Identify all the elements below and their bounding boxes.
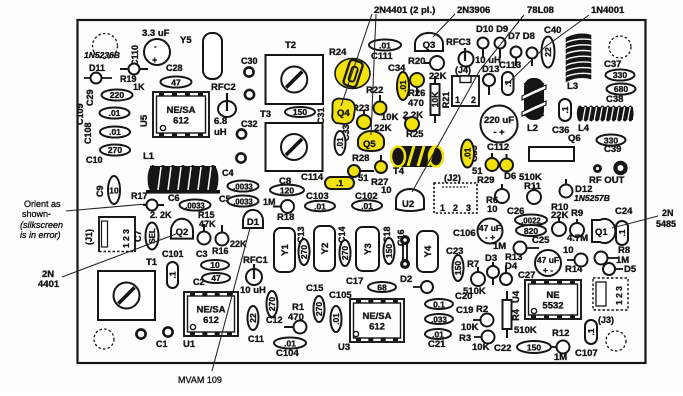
capacitor T3-150 [285, 107, 315, 117]
crystal Y4 [417, 231, 438, 272]
svg-text:10K: 10K [430, 91, 440, 107]
svg-text:RF OUT: RF OUT [589, 175, 625, 186]
svg-text:3: 3 [466, 203, 471, 213]
svg-text:R4: R4 [511, 309, 521, 321]
svg-text:22: 22 [543, 47, 553, 57]
capacitor C34 .01 [397, 72, 409, 100]
svg-text:4401: 4401 [38, 279, 60, 290]
svg-text:C101: C101 [162, 249, 184, 259]
capacitor C26 .0022 [507, 206, 547, 226]
capacitor C11 22 [248, 306, 259, 330]
svg-text:1N5236B: 1N5236B [84, 50, 120, 60]
IC U1 NE/SA 612 [184, 292, 238, 336]
capacitor C105 .01 [331, 306, 342, 332]
T2 body [266, 55, 324, 104]
diode D11 [84, 63, 112, 84]
svg-text:51: 51 [358, 173, 369, 184]
svg-text:C107: C107 [575, 348, 598, 359]
svg-text:T1: T1 [146, 257, 158, 268]
svg-text:Q1: Q1 [595, 227, 608, 238]
svg-text:.01: .01 [336, 137, 345, 149]
svg-text:NE/SA: NE/SA [362, 311, 391, 322]
svg-text:.01: .01 [109, 127, 121, 137]
transistor Q4 [332, 99, 355, 125]
svg-text:R20: R20 [408, 56, 425, 67]
svg-text:C6: C6 [168, 193, 180, 203]
T1 body [98, 271, 155, 320]
svg-text:470: 470 [288, 312, 304, 323]
svg-text:220: 220 [110, 90, 124, 100]
svg-text:4.7M: 4.7M [567, 233, 588, 244]
svg-text:47: 47 [211, 273, 221, 283]
capacitor C102 .01 [352, 191, 382, 211]
svg-text:R9: R9 [571, 208, 583, 219]
svg-text:270: 270 [108, 145, 122, 155]
svg-text:MVAM 109: MVAM 109 [178, 375, 222, 385]
svg-text:10: 10 [381, 185, 392, 196]
svg-text:(J4): (J4) [455, 65, 471, 75]
svg-text:R3: R3 [459, 333, 471, 344]
svg-text:R25: R25 [406, 129, 424, 140]
svg-text:3.3 uF: 3.3 uF [142, 28, 170, 39]
capacitor C13 270 [299, 239, 310, 265]
inductor L2 [522, 78, 546, 120]
resistor R14 10 [563, 245, 588, 275]
transistor Q2 [171, 219, 193, 239]
capacitor C7 SEL [133, 223, 159, 250]
transistor Q3 [415, 33, 443, 51]
svg-text:C3: C3 [196, 249, 208, 259]
svg-text:2N: 2N [662, 208, 674, 218]
svg-text:.1: .1 [168, 271, 178, 278]
svg-text:Y3: Y3 [363, 243, 374, 255]
svg-text:-: - [154, 42, 157, 51]
connector J3 [593, 278, 628, 325]
pad C32 [237, 129, 246, 138]
C113 pill [502, 72, 514, 95]
resistor R16b 22K [216, 225, 229, 246]
svg-text:shown-: shown- [22, 209, 51, 219]
svg-text:T3: T3 [260, 109, 271, 120]
svg-text:.1: .1 [560, 106, 570, 113]
svg-text:(silkscreen: (silkscreen [20, 220, 63, 230]
svg-text:C112: C112 [487, 142, 509, 153]
svg-text:C11: C11 [248, 334, 264, 344]
svg-text:270: 270 [267, 297, 277, 311]
capacitor C17 68 [346, 276, 396, 293]
crystal Y5 [180, 33, 222, 79]
resistor R1 [284, 321, 307, 334]
resistor R13 1M [493, 241, 539, 263]
leader overlay lines [62, 14, 658, 371]
svg-text:R16: R16 [212, 246, 229, 256]
svg-text:C28: C28 [166, 63, 183, 73]
svg-text:T2: T2 [285, 40, 296, 51]
transistor Q1 [592, 219, 615, 243]
capacitor C15 270 [314, 296, 325, 322]
svg-text:D7 D8: D7 D8 [508, 31, 535, 42]
trimmer R24 [329, 47, 370, 89]
capacitor C40 22 [542, 25, 562, 68]
regulator Q6 rect [529, 147, 574, 161]
capacitor C18 150 [384, 238, 395, 264]
pad C1a [136, 329, 145, 338]
diode D4 [500, 261, 518, 285]
svg-text:C29: C29 [85, 89, 95, 106]
svg-text:C17: C17 [346, 276, 363, 287]
svg-text:C31: C31 [316, 107, 326, 124]
svg-text:270: 270 [299, 245, 309, 259]
diode D10 [478, 38, 489, 59]
svg-text:C36: C36 [552, 125, 569, 136]
capacitor C37 330 [606, 70, 635, 81]
resistor R6 [495, 184, 509, 203]
svg-text:68: 68 [377, 283, 387, 293]
svg-text:Q4: Q4 [337, 108, 350, 119]
capacitor C22 150 [494, 341, 551, 354]
capacitor C106 47uF [453, 219, 503, 244]
resistor R12 1M [550, 328, 570, 363]
capacitor C4 .0033 [222, 168, 259, 192]
svg-text:C12: C12 [266, 315, 283, 325]
svg-text:C25: C25 [532, 235, 550, 246]
resistor R15 [198, 224, 211, 245]
svg-text:C30: C30 [241, 56, 258, 66]
svg-text:U2: U2 [402, 199, 414, 210]
capacitor 220uF [481, 106, 518, 143]
R7 circle [471, 267, 485, 286]
R9 circle [570, 219, 584, 237]
resistor R27 [375, 155, 387, 173]
svg-text:2: 2 [471, 95, 476, 105]
svg-text:2N3906: 2N3906 [457, 5, 490, 16]
pad below C32 [236, 153, 245, 162]
svg-text:C10: C10 [86, 155, 103, 165]
svg-text:10K: 10K [461, 322, 479, 333]
svg-text:10: 10 [487, 204, 498, 215]
resistor R18 [273, 200, 294, 213]
svg-text:1K: 1K [133, 82, 145, 92]
svg-text:C15: C15 [306, 283, 324, 294]
diode D5 [603, 263, 637, 275]
connector J4 [452, 65, 479, 106]
svg-text:D10 D9: D10 D9 [476, 24, 508, 35]
svg-text:RFC3: RFC3 [446, 37, 471, 48]
capacitor C9 10 [108, 176, 120, 204]
svg-text:10K: 10K [472, 342, 490, 353]
svg-text:47K: 47K [199, 219, 216, 229]
svg-text:1 2 3: 1 2 3 [614, 286, 624, 305]
diode D2 [400, 274, 433, 293]
svg-text:Q3: Q3 [423, 40, 436, 51]
capacitor C104 .01 [274, 338, 306, 360]
svg-text:D11: D11 [89, 63, 105, 73]
svg-text:C37: C37 [604, 59, 621, 70]
svg-text:.0033: .0033 [233, 198, 253, 207]
svg-text:C21: C21 [428, 339, 446, 350]
hole bottom-left [94, 329, 114, 349]
capacitor C111 .01 [369, 40, 401, 63]
svg-text:C19: C19 [456, 305, 473, 316]
svg-text:150: 150 [527, 343, 541, 353]
svg-text:.01: .01 [398, 80, 408, 92]
svg-text:is in error): is in error) [20, 230, 61, 240]
svg-text:R22: R22 [366, 85, 383, 96]
capacitor C39 330 [597, 135, 626, 156]
svg-text:C38: C38 [606, 94, 623, 105]
C23 ellipse [453, 255, 464, 281]
capacitor C19 .033 [425, 305, 473, 325]
svg-text:1: 1 [455, 95, 460, 105]
C107 pill [585, 320, 597, 344]
svg-text:C114: C114 [301, 172, 324, 183]
svg-text:+ -: + - [543, 265, 553, 275]
svg-text:C2: C2 [193, 277, 205, 287]
coil L1 body [146, 165, 220, 194]
C24 pill [616, 221, 628, 245]
svg-text:612: 612 [369, 322, 385, 333]
capacitor C3 10 [201, 260, 229, 270]
svg-text:C113: C113 [499, 60, 521, 71]
transistor Q5 [358, 131, 384, 151]
svg-text:R29: R29 [477, 175, 494, 186]
svg-text:.01: .01 [109, 108, 121, 118]
capacitor C21 .01 [425, 329, 451, 350]
svg-text:.01: .01 [314, 202, 326, 212]
IC U5 NE/SA 612 [153, 92, 209, 137]
svg-text:R18: R18 [277, 212, 294, 223]
capacitor 47uF right [535, 250, 561, 276]
C101 pill [167, 262, 178, 288]
svg-text:612: 612 [173, 116, 189, 127]
svg-text:U5: U5 [139, 114, 150, 127]
svg-text:22K: 22K [429, 71, 447, 82]
pad C1b [163, 327, 172, 336]
C35 pill [461, 140, 474, 168]
capacitor .1 C36 [559, 99, 571, 121]
svg-text:C40: C40 [544, 25, 561, 36]
capacitor C25 820 [516, 225, 550, 246]
capacitor C6 .0033 [168, 193, 211, 211]
svg-text:.01: .01 [361, 201, 373, 211]
svg-text:NE/SA: NE/SA [166, 105, 195, 116]
svg-text:D2: D2 [400, 274, 412, 285]
svg-text:C7: C7 [133, 230, 143, 242]
svg-text:RFC1: RFC1 [243, 255, 269, 266]
capacitor C109 .01 [100, 108, 130, 119]
svg-text:10: 10 [563, 245, 574, 256]
svg-text:+: + [152, 55, 157, 65]
capacitor C8 120 [270, 176, 304, 196]
svg-text:10 uH: 10 uH [240, 285, 266, 296]
IC U4 NE5532 [525, 280, 581, 319]
svg-text:U3: U3 [338, 342, 350, 353]
svg-text:D1: D1 [247, 217, 260, 228]
svg-text:.01: .01 [284, 339, 296, 349]
resistor R19 [120, 64, 148, 75]
svg-text:.0033: .0033 [233, 183, 253, 192]
svg-text:C32: C32 [241, 119, 258, 129]
capacitor C38 680 [607, 84, 636, 95]
inductor L4 [577, 106, 634, 122]
capacitor C33 .01 [335, 124, 352, 155]
svg-text:T4: T4 [393, 166, 405, 177]
crystal Y3 [356, 227, 379, 271]
svg-text:1N4001: 1N4001 [591, 5, 625, 16]
svg-text:NE/SA: NE/SA [196, 305, 225, 316]
svg-text:470: 470 [408, 98, 424, 109]
pad below C30 [245, 90, 254, 99]
diode D12 [560, 179, 593, 198]
regulator U2 [396, 189, 424, 211]
svg-text:220 uF: 220 uF [484, 115, 514, 126]
svg-text:R28: R28 [352, 153, 369, 164]
inductor RFC2 [211, 82, 236, 117]
inductor RFC3 [446, 37, 474, 67]
diode D3 [485, 253, 499, 285]
svg-text:C109: C109 [75, 103, 85, 125]
capacitor C14 270 [340, 240, 351, 266]
svg-text:270: 270 [340, 246, 350, 260]
svg-text:U4: U4 [511, 290, 522, 303]
svg-text:1N5257B: 1N5257B [574, 193, 610, 203]
pad RF small [593, 164, 602, 173]
svg-text:C39: C39 [604, 144, 621, 155]
svg-text:- +: - + [493, 127, 505, 138]
board outline [78, 20, 646, 363]
IC U3 NE/SA 612 [350, 299, 404, 342]
svg-text:612: 612 [203, 315, 219, 326]
svg-text:(J3): (J3) [598, 315, 614, 325]
svg-text:R14: R14 [565, 264, 583, 275]
svg-text:10K: 10K [381, 112, 399, 123]
connector J2 [434, 173, 477, 213]
svg-text:RFC2: RFC2 [211, 82, 236, 93]
svg-text:NE: NE [546, 290, 559, 301]
transformer T4 coil [391, 146, 443, 167]
capacitor C110 3.3uF [130, 28, 170, 66]
svg-text:510K: 510K [463, 286, 486, 297]
resistor R4 510K [503, 291, 537, 338]
resistor R17 [143, 200, 164, 211]
svg-text:Y4: Y4 [423, 245, 434, 257]
crystal Y1 [274, 228, 295, 272]
svg-text:47 uF: 47 uF [537, 255, 559, 265]
capacitor C2 47 [202, 273, 230, 283]
svg-text:0.1: 0.1 [433, 300, 445, 310]
svg-text:C105: C105 [329, 290, 352, 301]
svg-text:5532: 5532 [542, 301, 563, 312]
svg-text:2: 2 [453, 203, 458, 213]
svg-text:78L08: 78L08 [527, 5, 554, 16]
capacitor C103 .01 [305, 191, 335, 212]
svg-text:D3: D3 [485, 253, 497, 264]
capacitor C12 270 [267, 291, 278, 317]
svg-text:D6: D6 [504, 171, 516, 182]
R11 circle [527, 185, 541, 204]
capacitor C20 0.1 [425, 291, 472, 310]
resistor R2 10K [461, 304, 494, 333]
R10 circle [552, 218, 566, 236]
svg-text:L1: L1 [143, 151, 155, 162]
svg-text:Orient as: Orient as [24, 199, 61, 209]
svg-text:.01: .01 [432, 330, 444, 340]
resistor R29 51 [486, 153, 499, 171]
svg-text:120: 120 [280, 186, 294, 196]
svg-text:47: 47 [171, 78, 181, 88]
svg-text:270: 270 [314, 302, 324, 316]
resistor R23 [357, 110, 371, 129]
pad C30 [244, 67, 253, 76]
svg-text:22: 22 [248, 313, 258, 323]
hole bottom-right [606, 331, 626, 351]
svg-text:uH: uH [214, 127, 227, 138]
svg-text:Q5: Q5 [363, 139, 376, 150]
pad RF big [613, 161, 627, 175]
svg-text:5485: 5485 [656, 219, 676, 229]
resistor R25 [403, 117, 419, 131]
diode D1 [243, 210, 263, 228]
svg-text:Y2: Y2 [320, 243, 331, 255]
svg-text:.033: .033 [431, 316, 447, 325]
hole C37 [609, 36, 631, 58]
svg-text:10: 10 [210, 260, 220, 270]
svg-text:.1: .1 [617, 229, 627, 236]
inductor RFC1 [240, 255, 269, 296]
T3 body [266, 123, 323, 171]
resistor R22 [374, 95, 387, 115]
svg-text:.1: .1 [586, 328, 596, 335]
svg-text:D5: D5 [624, 264, 637, 275]
svg-text:U1: U1 [183, 339, 196, 350]
inductor L3 [566, 34, 591, 82]
svg-text:L2: L2 [527, 123, 538, 134]
svg-text:R24: R24 [329, 47, 347, 58]
resistor R26 [410, 73, 424, 95]
crystal Y2 [314, 226, 335, 271]
svg-text:C108: C108 [83, 122, 93, 144]
svg-text:C22: C22 [494, 343, 511, 354]
svg-text:680: 680 [614, 84, 628, 94]
svg-text:.01: .01 [463, 147, 473, 159]
svg-text:.01: .01 [379, 41, 391, 51]
resistor R28 [348, 165, 374, 177]
diode D7 [511, 47, 522, 67]
resistor R20 [424, 56, 444, 70]
diode D6 [500, 154, 513, 172]
svg-text:Y1: Y1 [280, 243, 291, 255]
connector J1 [99, 217, 135, 252]
svg-text:1M: 1M [493, 241, 506, 252]
svg-text:1M: 1M [554, 352, 567, 363]
svg-text:C4: C4 [222, 168, 234, 178]
svg-text:C104: C104 [276, 348, 299, 359]
capacitor C29 220 [102, 90, 133, 101]
svg-text:6.8: 6.8 [214, 116, 227, 127]
svg-text:.01: .01 [331, 313, 341, 325]
svg-text:150: 150 [293, 107, 307, 117]
svg-text:R21: R21 [441, 92, 451, 109]
jumper C16 [400, 235, 410, 269]
svg-text:R12: R12 [552, 328, 569, 339]
svg-text:2N4401 (2 pl.): 2N4401 (2 pl.) [374, 5, 435, 16]
svg-text:Q6: Q6 [568, 133, 581, 144]
svg-text:C24: C24 [615, 206, 633, 217]
svg-text:(J1): (J1) [84, 229, 94, 245]
resistor R8 1M [595, 245, 631, 266]
svg-text:Q2: Q2 [176, 227, 189, 238]
svg-text:C106: C106 [453, 228, 476, 239]
